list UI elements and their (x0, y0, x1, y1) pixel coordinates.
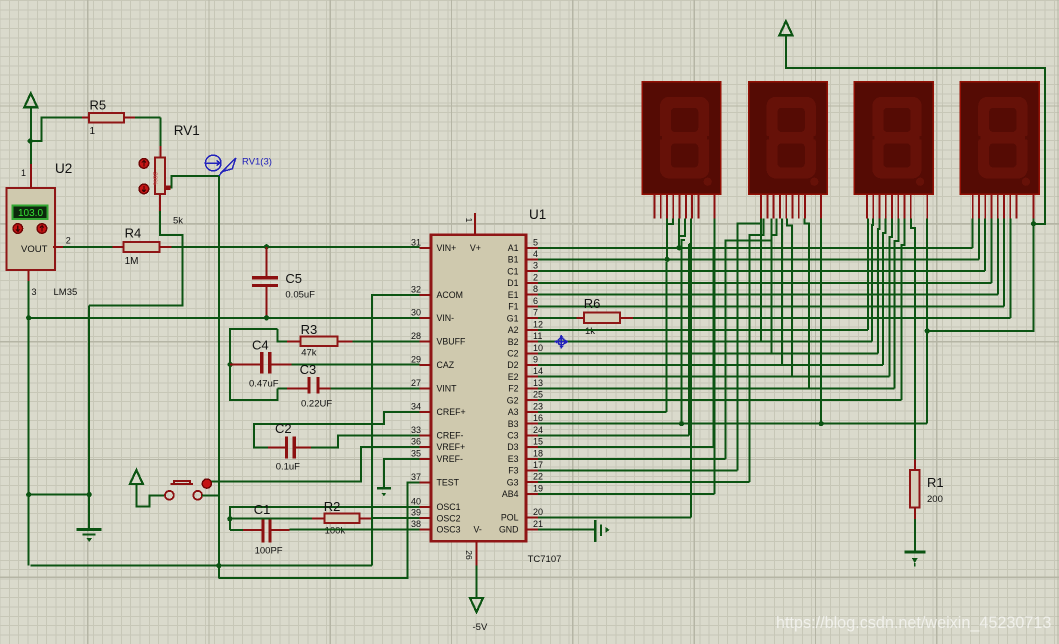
potentiometer RV1 body (151, 158, 171, 194)
U2 LCD display 103.0 (13, 206, 48, 220)
wire B3 bus end corner (854, 422, 927, 424)
U1 right pin numbers (533, 237, 543, 529)
svg-text:35: 35 (411, 448, 421, 458)
svg-text:A2: A2 (508, 325, 519, 335)
svg-text:V+: V+ (470, 243, 481, 253)
U2 pin2 stub (53, 246, 63, 248)
label C4 value (249, 379, 279, 390)
capacitor C2 (268, 437, 311, 459)
svg-text:32: 32 (411, 284, 421, 294)
svg-text:C1: C1 (507, 266, 518, 276)
svg-text:E3: E3 (508, 454, 519, 464)
wire OSC2 net R2 to U1 pin39 (371, 517, 419, 519)
wire display4 common link (1033, 219, 1035, 224)
capacitor C4 (230, 352, 291, 373)
wire POL net U1 pin20 (538, 516, 691, 518)
svg-text:https://blog.csdn.net/weixin_4: https://blog.csdn.net/weixin_45230713 (776, 614, 1051, 632)
capacitor C1 (230, 519, 290, 542)
wire analog rail y565 (31, 565, 372, 567)
svg-text:CREF-: CREF- (437, 431, 464, 441)
svg-text:100k: 100k (325, 526, 346, 537)
svg-text:C5: C5 (285, 271, 302, 286)
U1 right pin names (499, 243, 519, 535)
label LM35 (54, 287, 78, 298)
svg-text:5k: 5k (173, 215, 183, 226)
junction C4 left on loop (228, 362, 233, 367)
svg-text:CREF+: CREF+ (437, 407, 466, 417)
svg-text:G3: G3 (507, 477, 519, 487)
wire bus D2 to display3 (538, 219, 886, 365)
svg-text:12: 12 (533, 319, 543, 329)
svg-text:TC7107: TC7107 (528, 554, 562, 565)
RV1 up button (139, 159, 149, 169)
wire display1 pin4 jog (667, 219, 673, 224)
U2 up button (13, 224, 23, 234)
U2 down button (37, 224, 47, 234)
svg-text:E2: E2 (508, 372, 519, 382)
svg-text:GND: GND (499, 525, 519, 535)
label C2 (275, 421, 292, 436)
RV1 down button (139, 184, 149, 194)
wire button right to TEST column (202, 494, 219, 496)
svg-text:19: 19 (533, 483, 543, 493)
wire display2 pin4 jog (772, 219, 777, 235)
svg-text:3: 3 (32, 287, 37, 297)
label R1 value 200 (927, 494, 943, 505)
wire CAZ net to U1 pin29 (292, 364, 420, 366)
capacitor C5 (252, 247, 278, 318)
wire commons to B3 net (927, 224, 1033, 331)
wire OSC3 net C1 to U1 pin38 (290, 529, 420, 531)
svg-text:0.1uF: 0.1uF (276, 462, 300, 473)
U2 pin1 number (21, 168, 26, 178)
label -5V (473, 622, 488, 633)
svg-text:U2: U2 (55, 161, 72, 176)
junction A1/display1 (677, 245, 682, 250)
U2 pin3 stub (28, 270, 30, 281)
svg-text:16: 16 (533, 413, 543, 423)
wire B3 riser to display1 (682, 240, 685, 424)
svg-text:VIN+: VIN+ (437, 243, 457, 253)
power +5V arrow top-left (24, 93, 37, 107)
svg-text:25: 25 (533, 390, 543, 400)
wire POL net riser to display1 pin7 (690, 219, 692, 518)
svg-text:13: 13 (533, 378, 543, 388)
label R4 value 1M (125, 256, 139, 267)
U1 left pin names (437, 243, 466, 535)
svg-text:TEST: TEST (437, 478, 460, 488)
RV1 bottom stub and wire to ground rail (89, 194, 182, 306)
junction display3 common node (925, 328, 930, 333)
svg-text:22: 22 (533, 472, 543, 482)
svg-text:A1: A1 (508, 243, 519, 253)
svg-text:21: 21 (533, 519, 543, 529)
svg-text:LM35: LM35 (54, 287, 78, 298)
ground symbol under R1 (904, 552, 925, 567)
U1 top pin number 1 (464, 218, 474, 223)
svg-text:47k: 47k (301, 348, 317, 359)
wire bus E2 to display3 (538, 219, 892, 377)
label R2 value 100k (325, 526, 346, 537)
wire U2 pin3 column to rail (28, 495, 30, 566)
svg-text:0.47uF: 0.47uF (249, 379, 279, 390)
label R4 (125, 226, 142, 241)
svg-text:3: 3 (533, 261, 538, 271)
svg-text:24: 24 (533, 425, 543, 435)
wire bus C2 to display3 (538, 219, 879, 354)
resistor R6 (584, 313, 620, 323)
svg-text:11: 11 (533, 331, 542, 341)
svg-text:33: 33 (411, 425, 421, 435)
svg-text:-5V: -5V (473, 622, 488, 633)
svg-text:RV1(3): RV1(3) (242, 157, 272, 168)
7-segment display 3 (854, 82, 933, 195)
svg-text:VREF+: VREF+ (437, 442, 466, 452)
junction bottom left corner (26, 492, 31, 497)
wire VIN- net U1 pin30 to LM35 ground column (29, 317, 420, 319)
wire CREF- net C2 right to U1 pin33 (311, 435, 419, 447)
svg-text:8: 8 (533, 284, 538, 294)
svg-text:6: 6 (533, 296, 538, 306)
svg-text:C3: C3 (507, 431, 518, 441)
push button (165, 479, 211, 500)
label C4 (252, 338, 269, 353)
svg-text:R4: R4 (125, 226, 142, 241)
label C5 value (285, 290, 315, 301)
U2 pin3 number (32, 287, 37, 297)
label V- inside U1 (474, 525, 482, 535)
display 4 pin stubs (973, 194, 1034, 219)
svg-text:1M: 1M (125, 256, 139, 267)
ground symbol near TEST (377, 488, 391, 496)
U1 right pin stubs (526, 248, 538, 530)
svg-text:R6: R6 (584, 296, 601, 311)
label C3 (300, 362, 317, 377)
junction C5 bottom on VIN- wire (264, 315, 269, 320)
wire OSC1 net U1 pin40 (230, 507, 419, 519)
wire U2 pin3 down column (28, 281, 30, 495)
svg-text:RV1: RV1 (174, 123, 200, 138)
power -5V arrow (470, 598, 483, 612)
svg-text:17: 17 (533, 460, 543, 470)
svg-text:15: 15 (533, 437, 543, 447)
label U2 (55, 161, 72, 176)
IC U1 TC7107 body (431, 235, 526, 542)
resistor R5 (82, 113, 161, 123)
wire display1 pin5 drop (678, 219, 680, 248)
wire button column down (218, 495, 220, 578)
U2 pin2 number (66, 236, 71, 246)
svg-text:40: 40 (411, 496, 421, 506)
cursor crosshair icon (555, 335, 569, 349)
U1 left pin stubs (419, 248, 431, 530)
svg-text:E1: E1 (508, 290, 519, 300)
wire OSC node down to C1 (229, 519, 231, 530)
svg-text:1: 1 (90, 126, 96, 137)
power +5V arrow displays (779, 21, 792, 35)
wire display2 pin8 drop to F2 (805, 219, 810, 389)
wire display2 pin5 drop to D2 (781, 219, 783, 365)
wire display1 pin3 drop (666, 219, 668, 260)
wire display1 pin6 jog (679, 219, 685, 236)
7-segment display 1 (642, 82, 721, 195)
svg-text:R2: R2 (324, 499, 341, 514)
wire bus A2 to display3 (538, 219, 868, 330)
svg-text:A3: A3 (508, 407, 519, 417)
wire +5V to U2 pin1 and R5 (30, 107, 32, 164)
svg-text:29: 29 (411, 354, 421, 364)
svg-text:F1: F1 (508, 302, 518, 312)
label C1 value 100PF (255, 546, 283, 557)
label R1 (927, 475, 944, 490)
wire VIN+ net R4 to U1 pin31 (171, 246, 419, 248)
svg-text:U1: U1 (529, 207, 546, 222)
wire OSC node to R2 (230, 518, 312, 520)
wire bus A1 to display4 (538, 219, 973, 248)
wire bus D1 to display4 (538, 219, 992, 283)
svg-text:VREF-: VREF- (437, 454, 463, 464)
svg-text:18: 18 (533, 448, 543, 458)
svg-text:37: 37 (411, 472, 421, 482)
svg-text:F3: F3 (508, 466, 518, 476)
watermark text (776, 614, 1051, 632)
display 2 pin stubs (761, 194, 821, 219)
svg-text:G1: G1 (507, 313, 519, 323)
wire bus C3 riser (538, 244, 691, 435)
label RV1 (174, 123, 200, 138)
wire display2 pin3 drop to C2 (771, 219, 773, 354)
resistor R4 (113, 242, 172, 252)
svg-text:OSC2: OSC2 (437, 513, 461, 523)
wire VREF- net U1 pin35 to analog ground (384, 459, 419, 487)
svg-text:AB4: AB4 (502, 489, 519, 499)
svg-text:C1: C1 (254, 502, 271, 517)
svg-text:D2: D2 (507, 360, 518, 370)
svg-text:1: 1 (21, 168, 26, 178)
svg-text:4: 4 (533, 249, 538, 259)
svg-text:200: 200 (927, 494, 943, 505)
label U1 (529, 207, 546, 222)
U1 bottom pin V- stub (476, 541, 478, 565)
label R6 value 1k (585, 326, 595, 337)
wire AB4 net to display1 common (538, 219, 715, 494)
wire VBUFF net to U1 pin28 (352, 340, 419, 342)
wire display3 common down to B3 bus (926, 219, 928, 424)
wire RV1 wiper to probe/button net (170, 176, 218, 495)
label RV1(3) (242, 157, 272, 168)
svg-text:D1: D1 (507, 278, 518, 288)
svg-text:OSC3: OSC3 (437, 525, 461, 535)
junction U2 pin3 column on VIN- wire (26, 315, 31, 320)
junction B3 riser (679, 421, 684, 426)
svg-text:G2: G2 (507, 395, 519, 405)
wire bus B2 to display3 (538, 219, 873, 342)
resistor R2 (312, 514, 371, 524)
wire bus F1 to display4 (538, 219, 1004, 307)
svg-text:R1: R1 (927, 475, 944, 490)
wire corner to ground column (29, 494, 89, 496)
label R5 value 1 (90, 126, 96, 137)
wire bus E1 to display4 (538, 219, 998, 295)
svg-text:V-: V- (474, 525, 482, 535)
svg-text:30: 30 (411, 307, 421, 317)
svg-text:B2: B2 (508, 337, 519, 347)
wire bus F2 to display3 (538, 219, 898, 389)
wire integrator loop (230, 329, 277, 400)
wire bus C1 to display4 (538, 219, 985, 272)
label R6 (584, 296, 601, 311)
label R5 (90, 98, 107, 113)
svg-text:C2: C2 (275, 421, 292, 436)
label C2 value (276, 462, 300, 473)
wire GND net U1 pin21 (538, 528, 595, 530)
U1 top pin V+ stub (474, 213, 476, 235)
svg-text:B1: B1 (508, 255, 519, 265)
wire +5V rail to display commons (786, 35, 1045, 224)
svg-text:VOUT: VOUT (21, 244, 48, 255)
wire display3 pin8 jog to R1 column (911, 219, 915, 460)
wire VREF+ net U1 pin36 to button node (207, 447, 419, 482)
svg-text:27: 27 (411, 378, 421, 388)
junction display4 common (1031, 221, 1036, 226)
svg-text:VBUFF: VBUFF (437, 337, 466, 347)
U1 bottom pin number 26 (464, 550, 474, 560)
svg-text:C4: C4 (252, 338, 269, 353)
svg-text:5: 5 (533, 237, 538, 247)
svg-text:0.05uF: 0.05uF (285, 290, 315, 301)
svg-text:31: 31 (411, 237, 421, 247)
svg-text:2: 2 (66, 236, 71, 246)
label C3 value (301, 399, 332, 410)
svg-text:F2: F2 (508, 384, 518, 394)
svg-text:B3: B3 (508, 419, 519, 429)
label U2 VOUT (21, 244, 48, 255)
svg-text:39: 39 (411, 508, 421, 518)
svg-text:36: 36 (411, 436, 421, 446)
label C1 (254, 502, 271, 517)
junction node U2 pin1/R5 (28, 138, 33, 143)
capacitor C3 (277, 377, 330, 394)
svg-text:C2: C2 (507, 348, 518, 358)
label TC7107 (528, 554, 562, 565)
wire display2 pin1 drop to B2 (760, 219, 762, 342)
probe RV1(3) icon (205, 155, 235, 176)
svg-text:POL: POL (501, 513, 519, 523)
label C5 (285, 271, 302, 286)
svg-text:20%: 20% (151, 172, 158, 185)
wire ground column x89 (88, 305, 90, 529)
wire bus D3 riser (538, 247, 715, 447)
power arrow near button (130, 470, 143, 484)
svg-text:D3: D3 (507, 442, 518, 452)
svg-text:34: 34 (411, 401, 421, 411)
svg-text:CAZ: CAZ (437, 360, 455, 370)
svg-text:26: 26 (464, 550, 474, 560)
wire R1 to ground (914, 519, 916, 552)
junction C5 top on VIN+ wire (264, 244, 269, 249)
wire bus B3 main (538, 423, 927, 425)
svg-text:0.22UF: 0.22UF (301, 399, 332, 410)
ground symbol sideways GND pin (595, 520, 609, 542)
svg-text:14: 14 (533, 366, 543, 376)
svg-text:C3: C3 (300, 362, 317, 377)
svg-text:1k: 1k (585, 326, 595, 337)
U2 pin1 stub (30, 164, 32, 188)
svg-text:1: 1 (464, 218, 474, 223)
wire R5 left branch (31, 118, 89, 141)
label R2 (324, 499, 341, 514)
label V+ inside U1 (470, 243, 481, 253)
wire power to button left (136, 484, 164, 506)
svg-text:ACOM: ACOM (437, 290, 463, 300)
svg-text:VINT: VINT (437, 384, 458, 394)
wire U2 VOUT to R4 (63, 246, 113, 248)
resistor R1 (910, 459, 920, 519)
wire CREF+ net U1 pin34 to C2 left (254, 412, 419, 448)
junction button column on ground rail (216, 563, 221, 568)
junction B1/display1 (665, 257, 670, 262)
svg-text:VIN-: VIN- (437, 313, 455, 323)
svg-text:38: 38 (411, 519, 421, 529)
svg-text:2: 2 (533, 272, 538, 282)
display 1 pin stubs (655, 194, 715, 219)
wire bus G1 to display4 (538, 219, 1010, 319)
svg-text:103.0: 103.0 (18, 208, 43, 219)
svg-text:7: 7 (533, 308, 538, 318)
wire display2 pin6 drop to E2 (787, 219, 792, 377)
component U2 LM35 body (7, 188, 56, 270)
svg-text:OSC1: OSC1 (437, 502, 461, 512)
display 3 pin stubs (867, 194, 927, 219)
svg-text:20: 20 (533, 507, 543, 517)
svg-text:R3: R3 (301, 322, 318, 337)
wire V- to -5V arrow (476, 566, 478, 599)
junction B3/display2 common (819, 421, 824, 426)
svg-text:100PF: 100PF (255, 546, 283, 557)
wire bus F3 to display2 pin1 (538, 224, 761, 471)
resistor R3 (277, 329, 352, 346)
junction ground column (87, 492, 92, 497)
wire bus B1 to display4 (538, 219, 979, 260)
svg-text:28: 28 (411, 331, 421, 341)
wire TEST net U1 pin37 down and across bottom (218, 482, 419, 578)
svg-text:9: 9 (533, 355, 538, 365)
wire VINT net to U1 pin27 (330, 388, 419, 390)
U1 left pin numbers (411, 237, 421, 529)
svg-text:23: 23 (533, 401, 543, 411)
wire bus G2 to display3 (538, 219, 905, 401)
junction OSC node (227, 516, 232, 521)
wire ACOM net U1 pin32 down to rail (372, 295, 419, 566)
7-segment display 2 (749, 82, 828, 195)
wire bus E3 to display2 (538, 241, 772, 459)
wire bus G3 to display2 pin2 (538, 219, 763, 483)
label R3 (301, 322, 318, 337)
ground symbol bottom-left (77, 530, 102, 543)
7-segment display 4 (960, 82, 1039, 195)
svg-text:R5: R5 (90, 98, 107, 113)
wire display2 common drop (820, 219, 822, 424)
wire R5 to RV1 top (160, 118, 162, 158)
svg-text:10: 10 (533, 343, 543, 353)
label RV1 value 5k (173, 215, 183, 226)
wire bus A3 riser (538, 262, 667, 412)
label R3 value 47k (301, 348, 317, 359)
